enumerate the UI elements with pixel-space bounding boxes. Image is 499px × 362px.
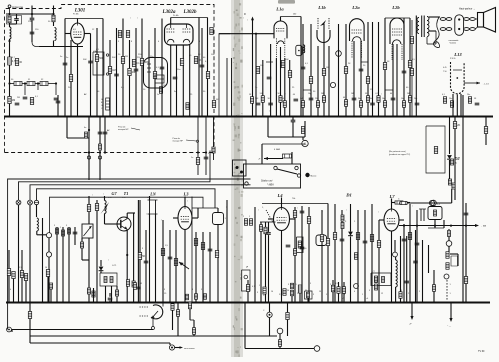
wire — [300, 17, 302, 117]
wire — [53, 22, 55, 26]
junction node — [255, 33, 257, 35]
junction node — [126, 254, 128, 256]
wire — [456, 95, 458, 117]
junction node — [29, 302, 31, 304]
wire — [88, 238, 90, 303]
junction node — [88, 151, 90, 153]
wire — [99, 117, 101, 181]
resistor — [132, 281, 135, 287]
transformer T output — [417, 16, 429, 38]
capacitor — [300, 247, 305, 249]
wire — [395, 287, 397, 303]
resistor — [309, 77, 312, 84]
svg-text:(pendant sur rappel TC): (pendant sur rappel TC) — [389, 153, 411, 156]
wire — [104, 214, 106, 225]
wire — [10, 23, 17, 25]
resistor — [468, 97, 471, 104]
wire — [429, 16, 440, 18]
junction node — [465, 225, 467, 227]
resistor — [87, 288, 90, 294]
resistor — [293, 249, 296, 256]
resistor — [301, 101, 304, 108]
wire — [189, 45, 191, 116]
junction node — [226, 302, 228, 304]
svg-text:2: 2 — [330, 284, 331, 286]
svg-text:L1b: L1b — [317, 5, 326, 10]
junction node — [434, 225, 436, 227]
resistor — [383, 63, 386, 70]
svg-text:40: 40 — [282, 98, 284, 100]
junction node — [328, 116, 330, 118]
wire — [260, 221, 276, 223]
capacitor — [475, 103, 480, 105]
resistor — [126, 31, 129, 38]
wire — [332, 280, 334, 285]
wire — [264, 158, 283, 160]
capacitor — [294, 99, 299, 101]
junction node — [395, 302, 397, 304]
svg-text:+5: +5 — [342, 298, 344, 300]
wire — [261, 144, 263, 164]
junction node — [52, 13, 54, 15]
wire — [126, 213, 128, 219]
svg-text:5n: 5n — [66, 57, 68, 59]
svg-text:4 45: 4 45 — [443, 67, 447, 69]
resistor — [108, 67, 111, 74]
junction node — [197, 151, 199, 153]
wire — [385, 17, 410, 19]
wire — [74, 227, 76, 245]
wire — [392, 44, 394, 116]
resistor — [344, 67, 347, 74]
wire — [148, 40, 150, 116]
wire — [394, 240, 396, 252]
wire — [294, 207, 296, 211]
wire — [81, 238, 83, 242]
resistor — [138, 253, 141, 260]
wire — [65, 33, 71, 35]
resistor — [204, 294, 207, 300]
wire — [378, 248, 380, 303]
wire — [191, 197, 193, 303]
resistor — [375, 277, 378, 283]
wire — [93, 288, 95, 303]
capacitor — [391, 98, 396, 100]
wire — [328, 46, 330, 116]
svg-text:L7: L7 — [388, 194, 395, 199]
wire — [39, 46, 83, 48]
wire — [217, 225, 219, 303]
junction node — [209, 302, 211, 304]
capacitor — [173, 77, 178, 79]
tube L302a L302b double envelope — [165, 24, 194, 45]
svg-text:m m: m m — [122, 197, 126, 199]
pot shield rect — [93, 52, 104, 75]
junction node — [451, 116, 453, 118]
junction node — [70, 116, 72, 118]
wire — [485, 134, 487, 146]
resistor — [288, 71, 291, 78]
wire — [260, 231, 262, 303]
resistor — [354, 253, 357, 260]
junction node — [137, 302, 139, 304]
antenna terminal — [8, 5, 23, 14]
svg-text:4 SAF: 4 SAF — [274, 148, 281, 151]
svg-text:5: 5 — [7, 265, 8, 267]
resistor — [110, 277, 113, 283]
dashed chassis link lower — [5, 152, 215, 154]
resistor — [180, 59, 183, 66]
tube L3 — [178, 207, 192, 230]
capacitor — [359, 69, 364, 71]
wire — [268, 235, 270, 303]
wire — [450, 303, 452, 319]
junction node — [280, 116, 282, 118]
wire — [67, 137, 89, 139]
junction node — [262, 116, 264, 118]
junction node — [345, 116, 347, 118]
resistor — [115, 290, 118, 296]
resistor — [307, 292, 310, 298]
svg-text:3: 3 — [257, 292, 258, 294]
svg-text:1: 1 — [259, 285, 260, 287]
capacitor — [30, 32, 35, 34]
wire — [422, 240, 424, 303]
wire — [31, 6, 33, 18]
resistor — [188, 302, 191, 309]
wire — [48, 83, 56, 85]
wire — [70, 40, 72, 116]
capacitor — [464, 213, 469, 215]
wire — [244, 303, 246, 349]
resistor — [359, 101, 362, 108]
wire — [36, 231, 38, 235]
wire — [193, 320, 195, 328]
wire — [287, 303, 289, 313]
junction node — [378, 302, 380, 304]
resistor — [293, 211, 296, 218]
junction node — [416, 225, 418, 227]
meter contact 1 — [336, 51, 342, 57]
resistor — [377, 241, 380, 248]
junction node — [111, 302, 113, 304]
junction node — [22, 302, 24, 304]
junction node — [116, 116, 118, 118]
dial lamp 1 — [16, 200, 21, 205]
resistor — [8, 97, 11, 104]
resistor — [20, 271, 23, 278]
wire — [301, 206, 303, 303]
wire — [268, 218, 274, 220]
diode D2 — [447, 155, 452, 159]
resistor — [264, 227, 267, 234]
pot box right of crease — [242, 270, 251, 291]
transformer T1 box — [82, 224, 93, 238]
transistor G7 — [117, 217, 131, 231]
connector pins rows — [440, 18, 446, 21]
wire — [403, 202, 410, 204]
resistor — [171, 304, 174, 311]
junction node — [364, 302, 366, 304]
wire — [116, 286, 118, 290]
wire — [416, 210, 418, 303]
resistor — [15, 59, 18, 66]
svg-text:30K: 30K — [144, 61, 149, 64]
junction node — [308, 302, 310, 304]
wire — [18, 205, 20, 303]
wire — [280, 47, 282, 116]
svg-text:10: 10 — [271, 291, 273, 293]
wire — [406, 236, 408, 303]
junction node — [300, 116, 302, 118]
wire — [255, 34, 257, 116]
svg-text:9: 9 — [66, 225, 67, 227]
wire — [35, 83, 40, 85]
resistor — [215, 251, 218, 258]
wire — [279, 346, 281, 348]
resistor — [212, 101, 215, 108]
wire — [426, 37, 428, 44]
wire — [281, 231, 283, 303]
junction node — [302, 116, 304, 118]
wire — [294, 218, 296, 303]
svg-text:Px Mx: Px Mx — [173, 15, 179, 17]
svg-text:0,1: 0,1 — [333, 290, 336, 292]
wire — [384, 18, 386, 116]
junction node — [218, 116, 220, 118]
svg-text:L.C: L.C — [372, 271, 376, 273]
svg-text:vers masse: vers masse — [184, 347, 195, 350]
junction node — [275, 116, 277, 118]
junction node — [90, 116, 92, 118]
capacitor — [200, 65, 205, 67]
capacitor — [30, 18, 35, 20]
resistor — [399, 292, 402, 299]
svg-text:Masse: Masse — [311, 175, 318, 177]
wire — [104, 117, 106, 153]
resistor — [56, 228, 59, 234]
wire — [400, 298, 402, 303]
junction node — [68, 302, 70, 304]
tube L2b — [390, 18, 404, 60]
junction node — [201, 116, 203, 118]
junction node — [469, 116, 471, 118]
capacitor — [136, 287, 141, 289]
junction node — [403, 225, 405, 227]
wire — [292, 122, 294, 137]
wire — [427, 43, 436, 45]
junction node — [102, 116, 104, 118]
junction node — [465, 302, 467, 304]
resistor — [104, 277, 107, 283]
wire — [350, 237, 352, 304]
junction node — [88, 151, 90, 153]
resistor — [195, 294, 198, 300]
junction node — [327, 302, 329, 304]
connector shell — [455, 15, 464, 36]
svg-text:20n: 20n — [467, 94, 470, 96]
junction node — [338, 116, 340, 118]
wire — [280, 17, 282, 22]
pot terminals — [106, 54, 108, 56]
wire — [219, 33, 274, 35]
junction node — [162, 302, 164, 304]
wire — [485, 117, 487, 127]
wire — [371, 204, 373, 303]
wire — [268, 136, 305, 138]
wire — [134, 212, 135, 214]
resistor — [256, 67, 259, 74]
capacitor — [56, 101, 61, 103]
wire — [289, 60, 291, 116]
wire — [162, 220, 164, 303]
main chassis bus (top section) — [4, 116, 493, 118]
wire — [149, 214, 151, 303]
wire — [281, 198, 283, 208]
resistor — [307, 217, 310, 224]
junction node — [109, 116, 111, 118]
main chassis bus (bottom) — [6, 302, 490, 304]
svg-text:L13: L13 — [453, 52, 462, 57]
svg-text:2M: 2M — [300, 98, 303, 100]
resistor — [246, 285, 249, 292]
wire — [172, 310, 174, 330]
wire — [175, 347, 180, 349]
junction node — [149, 302, 151, 304]
wire — [343, 293, 345, 303]
wire — [451, 189, 453, 203]
junction node — [55, 82, 57, 84]
wire — [53, 6, 55, 16]
wire — [137, 200, 139, 303]
wire — [262, 60, 264, 116]
wire — [275, 58, 277, 116]
wire — [265, 222, 267, 227]
wire — [64, 19, 66, 117]
svg-text:D2: D2 — [453, 156, 459, 161]
dashed enclosure box (tuner unit) — [5, 5, 215, 153]
diode G71 — [99, 267, 104, 271]
resistor — [344, 100, 347, 107]
resistor — [322, 96, 325, 103]
svg-text:2M: 2M — [17, 97, 20, 99]
resistor — [212, 147, 215, 153]
svg-text:260: 260 — [293, 14, 296, 16]
resistor — [121, 57, 124, 64]
wire — [415, 16, 417, 117]
wire — [411, 44, 413, 69]
resistor — [153, 72, 156, 79]
svg-text:2K: 2K — [198, 59, 201, 62]
wire — [57, 95, 59, 116]
junction node — [415, 116, 417, 118]
wire — [260, 222, 262, 225]
junction node — [56, 302, 58, 304]
svg-text:1: 1 — [296, 284, 297, 286]
junction node — [8, 13, 10, 15]
svg-text:2: 2 — [408, 293, 409, 295]
resistor — [140, 59, 143, 66]
wire — [357, 210, 359, 303]
junction node — [367, 116, 369, 118]
wire L301 grid top — [77, 19, 79, 24]
svg-text:3: 3 — [313, 294, 314, 296]
junction node — [353, 116, 355, 118]
junction node — [169, 302, 171, 304]
junction node — [37, 82, 39, 84]
resistor — [448, 179, 451, 185]
junction node — [88, 129, 90, 131]
wire — [12, 329, 153, 331]
wire — [448, 246, 450, 252]
wire — [266, 61, 273, 63]
junction node — [446, 302, 448, 304]
junction node — [462, 302, 464, 304]
svg-text:2K: 2K — [457, 124, 460, 127]
svg-text:* MEA: * MEA — [267, 184, 274, 187]
junction node — [88, 302, 90, 304]
wire — [379, 219, 384, 221]
resistor — [46, 270, 49, 277]
junction node — [148, 116, 150, 118]
resistor — [395, 201, 403, 204]
junction node — [415, 302, 417, 304]
resistor — [484, 127, 487, 134]
junction node — [145, 302, 147, 304]
wire — [88, 222, 90, 224]
wire — [116, 296, 118, 303]
svg-text:Station uni: Station uni — [261, 180, 273, 183]
capacitor — [63, 63, 68, 65]
page crease shading — [231, 0, 243, 357]
svg-text:10n: 10n — [177, 69, 180, 71]
rounded can mid — [316, 235, 327, 246]
capacitor — [309, 98, 314, 100]
terminal block small — [233, 160, 247, 176]
svg-text:L2a: L2a — [351, 5, 360, 10]
wire — [8, 276, 10, 304]
box rectifier region — [426, 126, 445, 173]
wire — [105, 223, 118, 225]
capacitor — [266, 233, 271, 235]
wire — [364, 210, 366, 303]
wire — [189, 302, 191, 304]
wire — [29, 303, 31, 344]
resistor — [261, 96, 264, 103]
wire — [391, 199, 393, 203]
wire — [435, 31, 437, 44]
wire — [245, 218, 247, 303]
wire — [338, 293, 340, 303]
wire — [391, 199, 393, 210]
resistor — [443, 97, 446, 104]
junction node — [8, 82, 10, 84]
wire — [207, 18, 209, 117]
wire — [269, 303, 271, 313]
junction node — [310, 116, 312, 118]
wire — [170, 18, 172, 25]
wire — [197, 208, 199, 218]
capacitor — [88, 61, 93, 63]
wire — [287, 320, 289, 337]
resistor — [408, 233, 411, 240]
capacitor — [268, 103, 273, 105]
wire — [55, 84, 57, 96]
wire — [262, 143, 305, 145]
svg-text:10n: 10n — [449, 98, 452, 100]
junction node — [434, 302, 436, 304]
switch box with lever — [244, 164, 301, 188]
